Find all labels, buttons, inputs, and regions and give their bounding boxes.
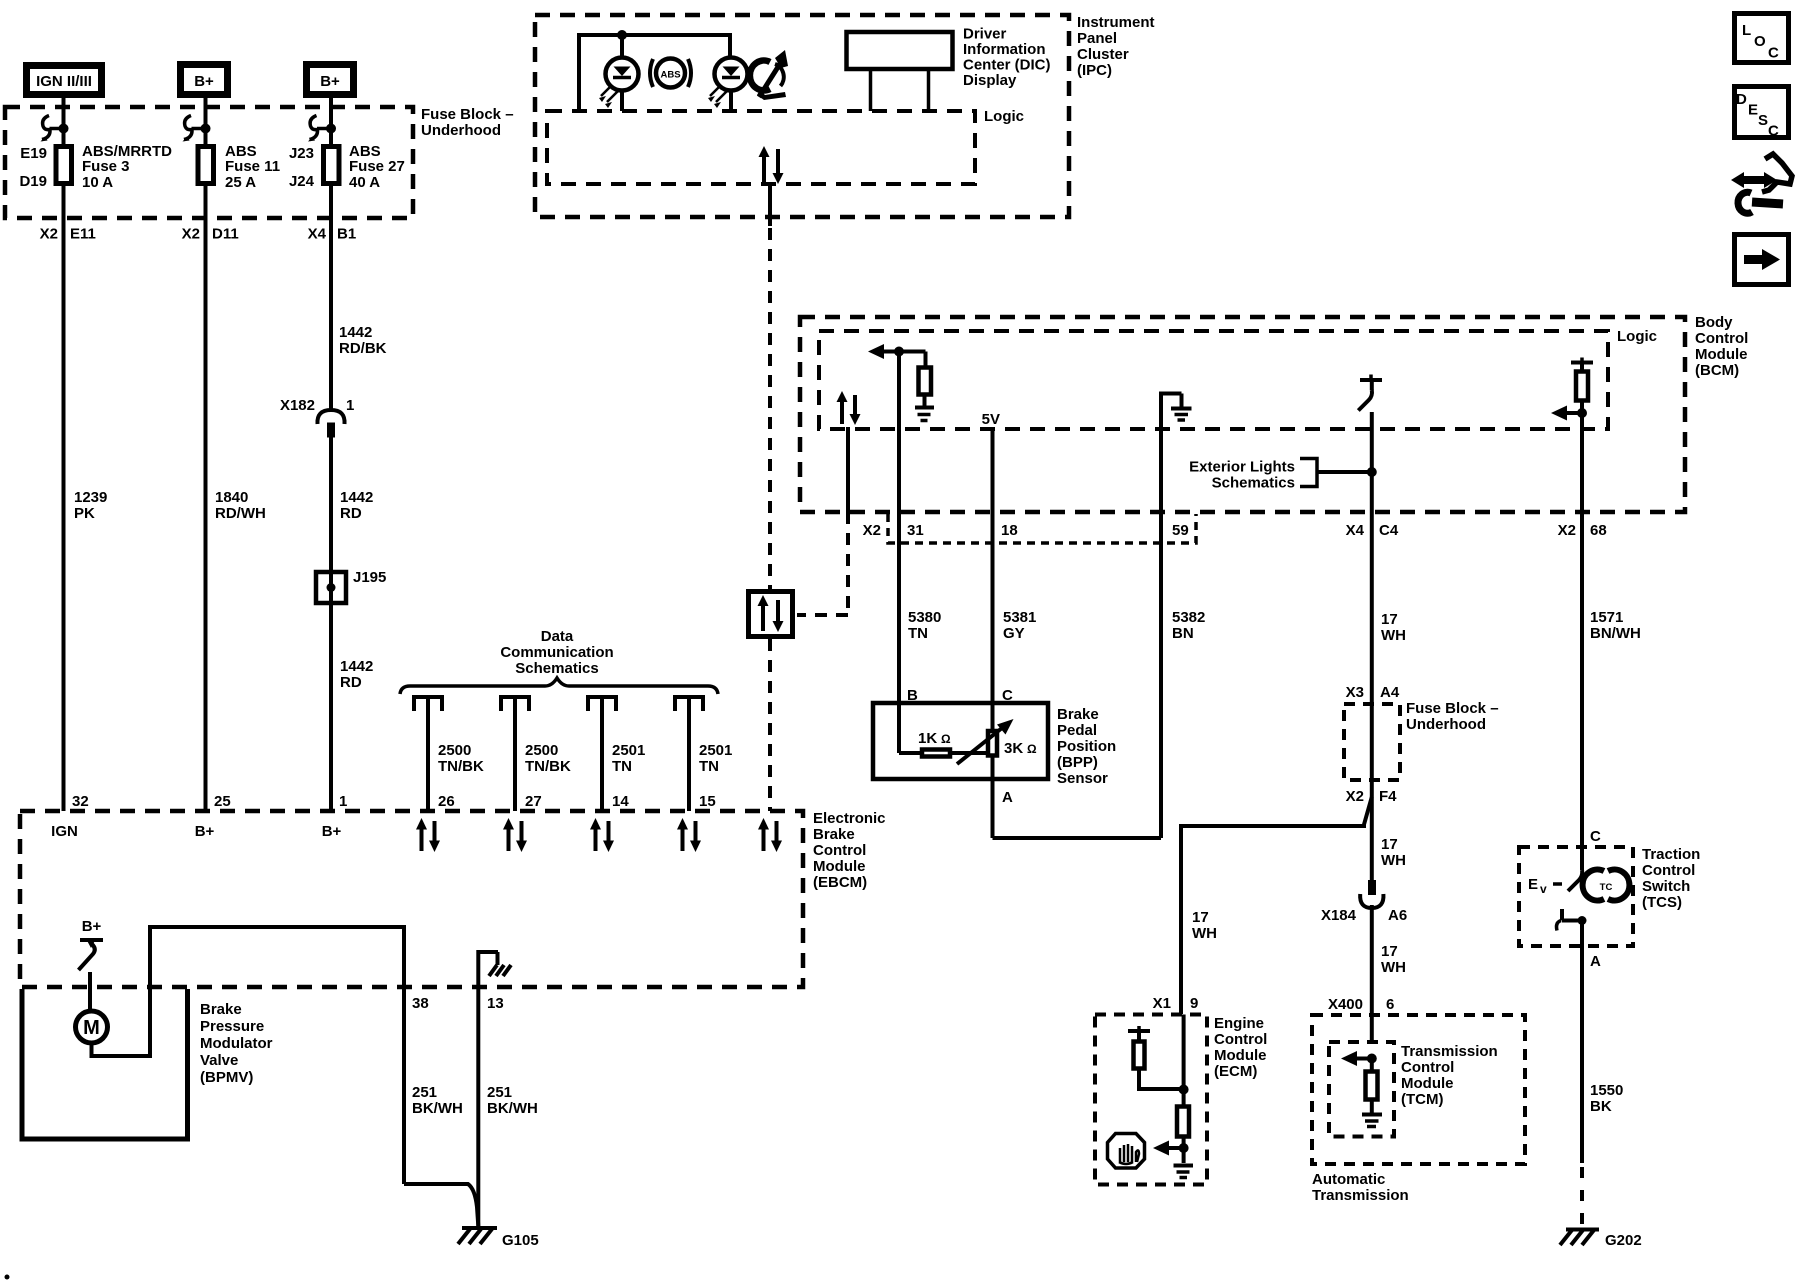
brake pedal position (BPP) sensor xyxy=(873,703,1116,787)
BCM input arrow (pin 68) xyxy=(1551,406,1587,421)
svg-text:Fuse Block –: Fuse Block – xyxy=(421,106,514,123)
wire BCM 68 to TCS C, circuit 1571 BN/WH xyxy=(1582,512,1641,847)
svg-text:Pedal: Pedal xyxy=(1057,722,1097,739)
svg-text:5V: 5V xyxy=(982,411,1000,428)
ground BCM internal (pull-up return) xyxy=(915,408,934,421)
splice J195 xyxy=(316,569,386,603)
node BCM 5V feed junction xyxy=(894,347,904,357)
svg-text:3K: 3K xyxy=(1004,740,1023,757)
wire X182 to J195, circuit 1442 RD xyxy=(331,437,373,570)
svg-text:B+: B+ xyxy=(82,918,102,935)
svg-text:(BPMV): (BPMV) xyxy=(200,1069,253,1086)
in-line connector X184 pin A6 xyxy=(1321,880,1407,924)
fuse block underhood box 2 xyxy=(1344,700,1499,780)
svg-text:Driver: Driver xyxy=(963,26,1007,43)
icon LOC box xyxy=(1735,14,1789,63)
page mark xyxy=(5,1275,10,1280)
svg-text:M: M xyxy=(83,1017,100,1039)
svg-text:(ECM): (ECM) xyxy=(1214,1063,1257,1080)
connector fork serial data 4 xyxy=(675,697,732,811)
svg-text:WH: WH xyxy=(1192,925,1217,942)
svg-text:WH: WH xyxy=(1381,627,1406,644)
svg-text:Module: Module xyxy=(1401,1075,1454,1092)
fuse F27 ABS 40A xyxy=(289,143,405,191)
svg-text:C: C xyxy=(1768,123,1779,140)
resistor 1K ohm xyxy=(899,730,986,757)
indicator lamp (TC) LED xyxy=(708,58,748,112)
svg-text:Transmission: Transmission xyxy=(1312,1187,1409,1204)
svg-text:(IPC): (IPC) xyxy=(1077,62,1112,79)
EBCM serial arrows pin 15 xyxy=(677,818,701,852)
IPC serial data arrows xyxy=(759,146,784,184)
IPC logic box xyxy=(547,108,1024,184)
svg-text:X2: X2 xyxy=(182,226,200,243)
ground G202 xyxy=(1560,1230,1642,1250)
svg-text:Panel: Panel xyxy=(1077,30,1117,47)
svg-text:17: 17 xyxy=(1192,909,1209,926)
svg-text:Ω: Ω xyxy=(941,732,951,746)
interchange data symbol box xyxy=(749,592,793,637)
fusible element hook at fuse 3 xyxy=(41,116,69,142)
resistor ECM pull-up xyxy=(1128,1026,1184,1089)
svg-text:E: E xyxy=(1748,102,1758,119)
wire fuse 11 to EBCM pin 25, circuit 1840 RD/WH xyxy=(182,184,266,811)
svg-text:BK: BK xyxy=(1590,1098,1612,1115)
svg-text:X2: X2 xyxy=(863,522,881,539)
svg-text:E11: E11 xyxy=(70,226,96,243)
svg-text:Transmission: Transmission xyxy=(1401,1043,1498,1060)
wire BPP pin B internal xyxy=(897,703,901,753)
indicator lamp (ABS) LED xyxy=(599,35,639,111)
connector fork serial data 3 xyxy=(588,697,645,811)
data communication schematics reference xyxy=(400,628,718,694)
svg-text:Logic: Logic xyxy=(984,108,1024,125)
svg-text:Control: Control xyxy=(1214,1031,1267,1048)
wire switch to pump motor xyxy=(88,972,92,1012)
svg-text:2501: 2501 xyxy=(612,742,645,759)
svg-text:Traction: Traction xyxy=(1642,846,1700,863)
svg-text:B+: B+ xyxy=(195,823,215,840)
DIC display xyxy=(847,26,1051,112)
svg-text:B+: B+ xyxy=(320,73,340,90)
potentiometer 3K ohm xyxy=(957,703,1037,779)
svg-text:(BPP): (BPP) xyxy=(1057,754,1098,771)
wire through fuse block to X2/F4 xyxy=(1346,704,1398,805)
svg-text:TN/BK: TN/BK xyxy=(438,758,484,775)
electronic brake control module (EBCM) box xyxy=(20,810,886,987)
svg-text:B+: B+ xyxy=(322,823,342,840)
svg-text:Ω: Ω xyxy=(1027,742,1037,756)
in-line connector X182 pin 1 xyxy=(280,397,354,438)
svg-text:5381: 5381 xyxy=(1003,609,1036,626)
fusible element hook at fuse 11 xyxy=(183,116,211,142)
svg-text:A4: A4 xyxy=(1380,684,1400,701)
body control module (BCM) box xyxy=(800,314,1748,512)
svg-text:X2: X2 xyxy=(40,226,58,243)
svg-text:5382: 5382 xyxy=(1172,609,1205,626)
svg-text:1: 1 xyxy=(339,793,347,810)
svg-text:Module: Module xyxy=(813,858,866,875)
svg-text:2500: 2500 xyxy=(525,742,558,759)
engine control module (ECM) box xyxy=(1095,1015,1267,1185)
ground G105 xyxy=(458,1228,539,1249)
svg-text:BN: BN xyxy=(1172,625,1194,642)
svg-text:Underhood: Underhood xyxy=(421,122,501,139)
wire BCM C4 to fuse block, circuit 17 WH xyxy=(1346,512,1406,704)
wire dashed interchange to EBCM xyxy=(768,639,772,811)
node 5V reference xyxy=(982,411,1000,512)
exterior lights schematics reference xyxy=(1189,459,1377,492)
connector fork serial data 1 xyxy=(414,697,484,811)
svg-text:RD: RD xyxy=(340,674,362,691)
svg-text:C4: C4 xyxy=(1379,522,1399,539)
svg-text:D19: D19 xyxy=(19,173,47,190)
svg-text:Control: Control xyxy=(1695,330,1748,347)
svg-text:C: C xyxy=(1590,828,1601,845)
svg-text:Fuse 27: Fuse 27 xyxy=(349,158,405,175)
svg-text:Pressure: Pressure xyxy=(200,1018,264,1035)
wire BCM pin 31 internal xyxy=(897,352,901,513)
svg-text:IGN II/III: IGN II/III xyxy=(36,73,92,90)
svg-text:E: E xyxy=(1528,876,1538,893)
brake pressure modulator valve (BPMV) outline xyxy=(22,989,273,1139)
TCS fixed contact xyxy=(1557,909,1587,931)
svg-text:1K: 1K xyxy=(918,730,937,747)
svg-text:10 A: 10 A xyxy=(82,174,113,191)
svg-text:Brake: Brake xyxy=(200,1001,242,1018)
stop lamp hand icon xyxy=(1108,1134,1145,1169)
svg-text:(TCS): (TCS) xyxy=(1642,894,1682,911)
resistor TCM pull-down xyxy=(1366,1059,1378,1114)
motor M pump xyxy=(76,1011,108,1043)
EBCM serial arrows pin 27 xyxy=(503,818,527,852)
svg-text:68: 68 xyxy=(1590,522,1607,539)
svg-text:Control: Control xyxy=(1401,1059,1454,1076)
svg-text:Electronic: Electronic xyxy=(813,810,886,827)
svg-text:17: 17 xyxy=(1381,611,1398,628)
wire pin 38 to G105, circuit 251 BK/WH xyxy=(404,1084,478,1226)
switch TCS momentary xyxy=(1528,847,1582,896)
fuse block underhood box 1 xyxy=(5,106,514,218)
resistor BCM pull-up (pin 68) xyxy=(1571,358,1593,513)
svg-text:O: O xyxy=(1754,33,1766,50)
svg-text:X182: X182 xyxy=(280,397,315,414)
svg-text:Body: Body xyxy=(1695,314,1733,331)
svg-text:Engine: Engine xyxy=(1214,1015,1264,1032)
svg-text:Data: Data xyxy=(541,628,574,645)
svg-text:IGN: IGN xyxy=(51,823,78,840)
BCM output driver arrow (pin 31) xyxy=(868,344,926,359)
transmission control module (TCM) box xyxy=(1329,1042,1498,1137)
wire B+ to fuse 11 xyxy=(204,98,208,146)
svg-text:Information: Information xyxy=(963,41,1046,58)
svg-text:E19: E19 xyxy=(20,145,47,162)
wire BCM pin 59 internal xyxy=(1159,429,1163,512)
svg-text:Automatic: Automatic xyxy=(1312,1171,1385,1188)
svg-text:RD/BK: RD/BK xyxy=(339,340,387,357)
svg-text:(BCM): (BCM) xyxy=(1695,362,1739,379)
wire J195 to EBCM pin 1, circuit 1442 RD xyxy=(331,603,373,811)
svg-text:D: D xyxy=(1736,91,1747,108)
svg-text:1442: 1442 xyxy=(339,324,372,341)
wire BCM serial data to pin X2 xyxy=(846,427,850,512)
svg-text:251: 251 xyxy=(412,1084,437,1101)
svg-text:1: 1 xyxy=(346,397,354,414)
svg-text:J23: J23 xyxy=(289,145,314,162)
switch BCM exterior-lamp driver xyxy=(1358,375,1382,411)
svg-text:S: S xyxy=(1758,112,1768,129)
svg-text:15: 15 xyxy=(699,793,716,810)
wire X184 to TCM pin 6, circuit 17 WH xyxy=(1328,905,1406,1042)
svg-text:X400: X400 xyxy=(1328,996,1363,1013)
svg-text:TN: TN xyxy=(612,758,632,775)
svg-text:TN: TN xyxy=(908,625,928,642)
icon wiring repair arrows xyxy=(1731,154,1792,213)
svg-text:6: 6 xyxy=(1386,996,1394,1013)
wire fuse 27 down, circuit 1442 RD/BK xyxy=(308,184,387,409)
svg-text:Fuse 3: Fuse 3 xyxy=(82,158,130,175)
TCM input arrow xyxy=(1341,1051,1377,1066)
svg-text:Module: Module xyxy=(1695,346,1748,363)
wire BCM pin 59 to BPP A, circuit 5382 BN xyxy=(1161,512,1205,838)
BCM connector pin row xyxy=(863,522,1607,539)
svg-text:Exterior Lights: Exterior Lights xyxy=(1189,459,1295,476)
wire IGN to fuse 3 xyxy=(62,98,66,146)
svg-text:X4: X4 xyxy=(308,226,327,243)
wire ECM pin 9 internal xyxy=(1182,1015,1186,1107)
svg-text:X2: X2 xyxy=(1346,788,1364,805)
svg-text:L: L xyxy=(1742,22,1751,39)
svg-text:C: C xyxy=(1768,45,1779,62)
wire BCM pin 31 to BPP B, circuit 5380 TN xyxy=(899,512,941,704)
svg-text:Communication: Communication xyxy=(500,644,613,661)
svg-text:A6: A6 xyxy=(1388,907,1407,924)
svg-text:27: 27 xyxy=(525,793,542,810)
wire pin 13 to G105, circuit 251 BK/WH xyxy=(487,1084,538,1117)
svg-text:9: 9 xyxy=(1190,995,1198,1012)
svg-text:Valve: Valve xyxy=(200,1052,238,1069)
traction control switch (TCS) box xyxy=(1519,846,1700,946)
svg-text:251: 251 xyxy=(487,1084,512,1101)
TC tire symbol xyxy=(1583,869,1630,900)
ground ECM internal xyxy=(1174,1166,1194,1178)
svg-text:Cluster: Cluster xyxy=(1077,46,1129,63)
svg-text:17: 17 xyxy=(1381,836,1398,853)
svg-text:X184: X184 xyxy=(1321,907,1357,924)
svg-text:X3: X3 xyxy=(1346,684,1364,701)
svg-text:Schematics: Schematics xyxy=(515,660,598,677)
svg-text:v: v xyxy=(1540,882,1547,896)
wire TCS A to G202, circuit 1550 BK xyxy=(1582,921,1623,1229)
wire IPC serial data (solid then dashed) xyxy=(768,184,772,589)
svg-text:A: A xyxy=(1002,789,1013,806)
svg-text:25: 25 xyxy=(214,793,231,810)
svg-text:Display: Display xyxy=(963,72,1017,89)
wire fuse 3 to EBCM pin 32, circuit 1239 PK xyxy=(40,184,108,811)
wire BPP pin A to 5382 xyxy=(993,779,1162,838)
power feed IGN II/III xyxy=(27,66,102,95)
svg-text:TC: TC xyxy=(1600,882,1613,893)
icon DESC box xyxy=(1735,87,1789,140)
wire F4 down to X184, circuit 17 WH xyxy=(1372,797,1406,881)
svg-text:1840: 1840 xyxy=(215,489,248,506)
svg-text:Instrument: Instrument xyxy=(1077,14,1155,31)
fuse F11 ABS 25A xyxy=(198,143,280,191)
EBCM pin 25 xyxy=(195,793,231,840)
svg-text:32: 32 xyxy=(72,793,89,810)
wire branch F4 to ECM pin 9, circuit 17 WH xyxy=(1153,797,1372,1014)
BCM serial data arrows xyxy=(837,391,861,425)
svg-text:G105: G105 xyxy=(502,1232,539,1249)
svg-text:BN/WH: BN/WH xyxy=(1590,625,1641,642)
EBCM serial arrows (IPC link) xyxy=(758,818,782,852)
svg-text:J24: J24 xyxy=(289,173,315,190)
instrument panel cluster (IPC) box xyxy=(535,14,1155,217)
svg-text:WH: WH xyxy=(1381,852,1406,869)
fusible element hook at fuse 27 xyxy=(308,116,336,142)
traction control off symbol xyxy=(750,50,788,100)
wire BCM pin 18 to BPP C, circuit 5381 GY xyxy=(993,512,1037,704)
svg-text:RD/WH: RD/WH xyxy=(215,505,266,522)
svg-text:59: 59 xyxy=(1172,522,1189,539)
svg-text:Fuse 11: Fuse 11 xyxy=(225,158,280,175)
svg-text:G202: G202 xyxy=(1605,1232,1642,1249)
svg-text:X2: X2 xyxy=(1558,522,1576,539)
resistor ECM series xyxy=(1177,1107,1189,1164)
ABS warning symbol xyxy=(650,59,691,88)
svg-text:TN/BK: TN/BK xyxy=(525,758,571,775)
svg-text:F4: F4 xyxy=(1379,788,1397,805)
fuse F3 ABS/MRRTD 10A xyxy=(19,143,172,191)
svg-text:RD: RD xyxy=(340,505,362,522)
svg-text:1571: 1571 xyxy=(1590,609,1623,626)
svg-text:Underhood: Underhood xyxy=(1406,716,1486,733)
svg-text:Brake: Brake xyxy=(813,826,855,843)
svg-text:31: 31 xyxy=(907,522,924,539)
svg-text:18: 18 xyxy=(1001,522,1018,539)
svg-text:Sensor: Sensor xyxy=(1057,770,1108,787)
node ECM junction xyxy=(1179,1085,1189,1095)
BCM connector block (pins 31/18/59) xyxy=(888,514,1196,543)
svg-text:BK/WH: BK/WH xyxy=(412,1100,463,1117)
svg-text:38: 38 xyxy=(412,995,429,1012)
node lamp bus junction xyxy=(617,30,627,40)
svg-text:WH: WH xyxy=(1381,959,1406,976)
svg-text:BK/WH: BK/WH xyxy=(487,1100,538,1117)
switch EBCM pump relay B+ xyxy=(79,918,104,970)
svg-text:13: 13 xyxy=(487,995,504,1012)
wire B+ to fuse 27 xyxy=(329,98,333,146)
wire lamp supply bus xyxy=(579,35,730,111)
svg-text:A: A xyxy=(1590,953,1601,970)
connector fork serial data 2 xyxy=(501,697,571,811)
svg-text:Control: Control xyxy=(813,842,866,859)
svg-text:26: 26 xyxy=(438,793,455,810)
svg-text:Position: Position xyxy=(1057,738,1116,755)
svg-text:Center (DIC): Center (DIC) xyxy=(963,57,1051,74)
svg-text:1550: 1550 xyxy=(1590,1082,1623,1099)
svg-text:TN: TN xyxy=(699,758,719,775)
power feed B+ (fuse 27) xyxy=(307,65,354,95)
wire BCM pin C4 internal xyxy=(1370,412,1374,512)
EBCM serial arrows pin 14 xyxy=(590,818,614,852)
svg-text:X1: X1 xyxy=(1153,995,1171,1012)
svg-text:2501: 2501 xyxy=(699,742,732,759)
svg-text:Control: Control xyxy=(1642,862,1695,879)
svg-text:Brake: Brake xyxy=(1057,706,1099,723)
svg-text:17: 17 xyxy=(1381,943,1398,960)
BCM logic box xyxy=(819,328,1657,429)
svg-text:40 A: 40 A xyxy=(349,174,380,191)
svg-text:Schematics: Schematics xyxy=(1212,475,1295,492)
svg-text:Module: Module xyxy=(1214,1047,1267,1064)
wire dashed BCM X2 to interchange xyxy=(797,512,848,615)
ground TCM internal xyxy=(1362,1115,1382,1127)
svg-text:GY: GY xyxy=(1003,625,1025,642)
EBCM pin 32 xyxy=(51,793,89,840)
svg-text:(EBCM): (EBCM) xyxy=(813,874,867,891)
svg-text:14: 14 xyxy=(612,793,629,810)
power feed B+ (fuse 11) xyxy=(181,65,228,95)
EBCM serial arrows pin 26 xyxy=(416,818,440,852)
automatic transmission box xyxy=(1312,1015,1525,1204)
resistor BCM pull-up xyxy=(919,352,932,407)
svg-text:1442: 1442 xyxy=(340,489,373,506)
svg-text:25 A: 25 A xyxy=(225,174,256,191)
icon forward arrow box xyxy=(1735,235,1789,285)
svg-text:J195: J195 xyxy=(353,569,386,586)
ground EBCM internal (pin 13) xyxy=(478,952,511,1228)
EBCM pin 1 xyxy=(322,793,348,840)
wire pump motor return to pin 38 xyxy=(92,927,405,1184)
ECM input arrow xyxy=(1153,1141,1189,1156)
svg-text:5380: 5380 xyxy=(908,609,941,626)
svg-text:D11: D11 xyxy=(212,226,239,243)
svg-text:B+: B+ xyxy=(194,73,214,90)
svg-text:Logic: Logic xyxy=(1617,328,1657,345)
svg-text:Fuse Block –: Fuse Block – xyxy=(1406,700,1499,717)
svg-text:1239: 1239 xyxy=(74,489,107,506)
ground BCM internal (pin 59 return) xyxy=(1159,394,1192,430)
svg-text:(TCM): (TCM) xyxy=(1401,1091,1443,1108)
svg-text:Switch: Switch xyxy=(1642,878,1690,895)
svg-text:2500: 2500 xyxy=(438,742,471,759)
svg-text:1442: 1442 xyxy=(340,658,373,675)
svg-text:X4: X4 xyxy=(1346,522,1365,539)
svg-text:B1: B1 xyxy=(337,226,356,243)
svg-text:ABS: ABS xyxy=(660,70,680,81)
svg-text:Modulator: Modulator xyxy=(200,1035,273,1052)
svg-text:PK: PK xyxy=(74,505,95,522)
